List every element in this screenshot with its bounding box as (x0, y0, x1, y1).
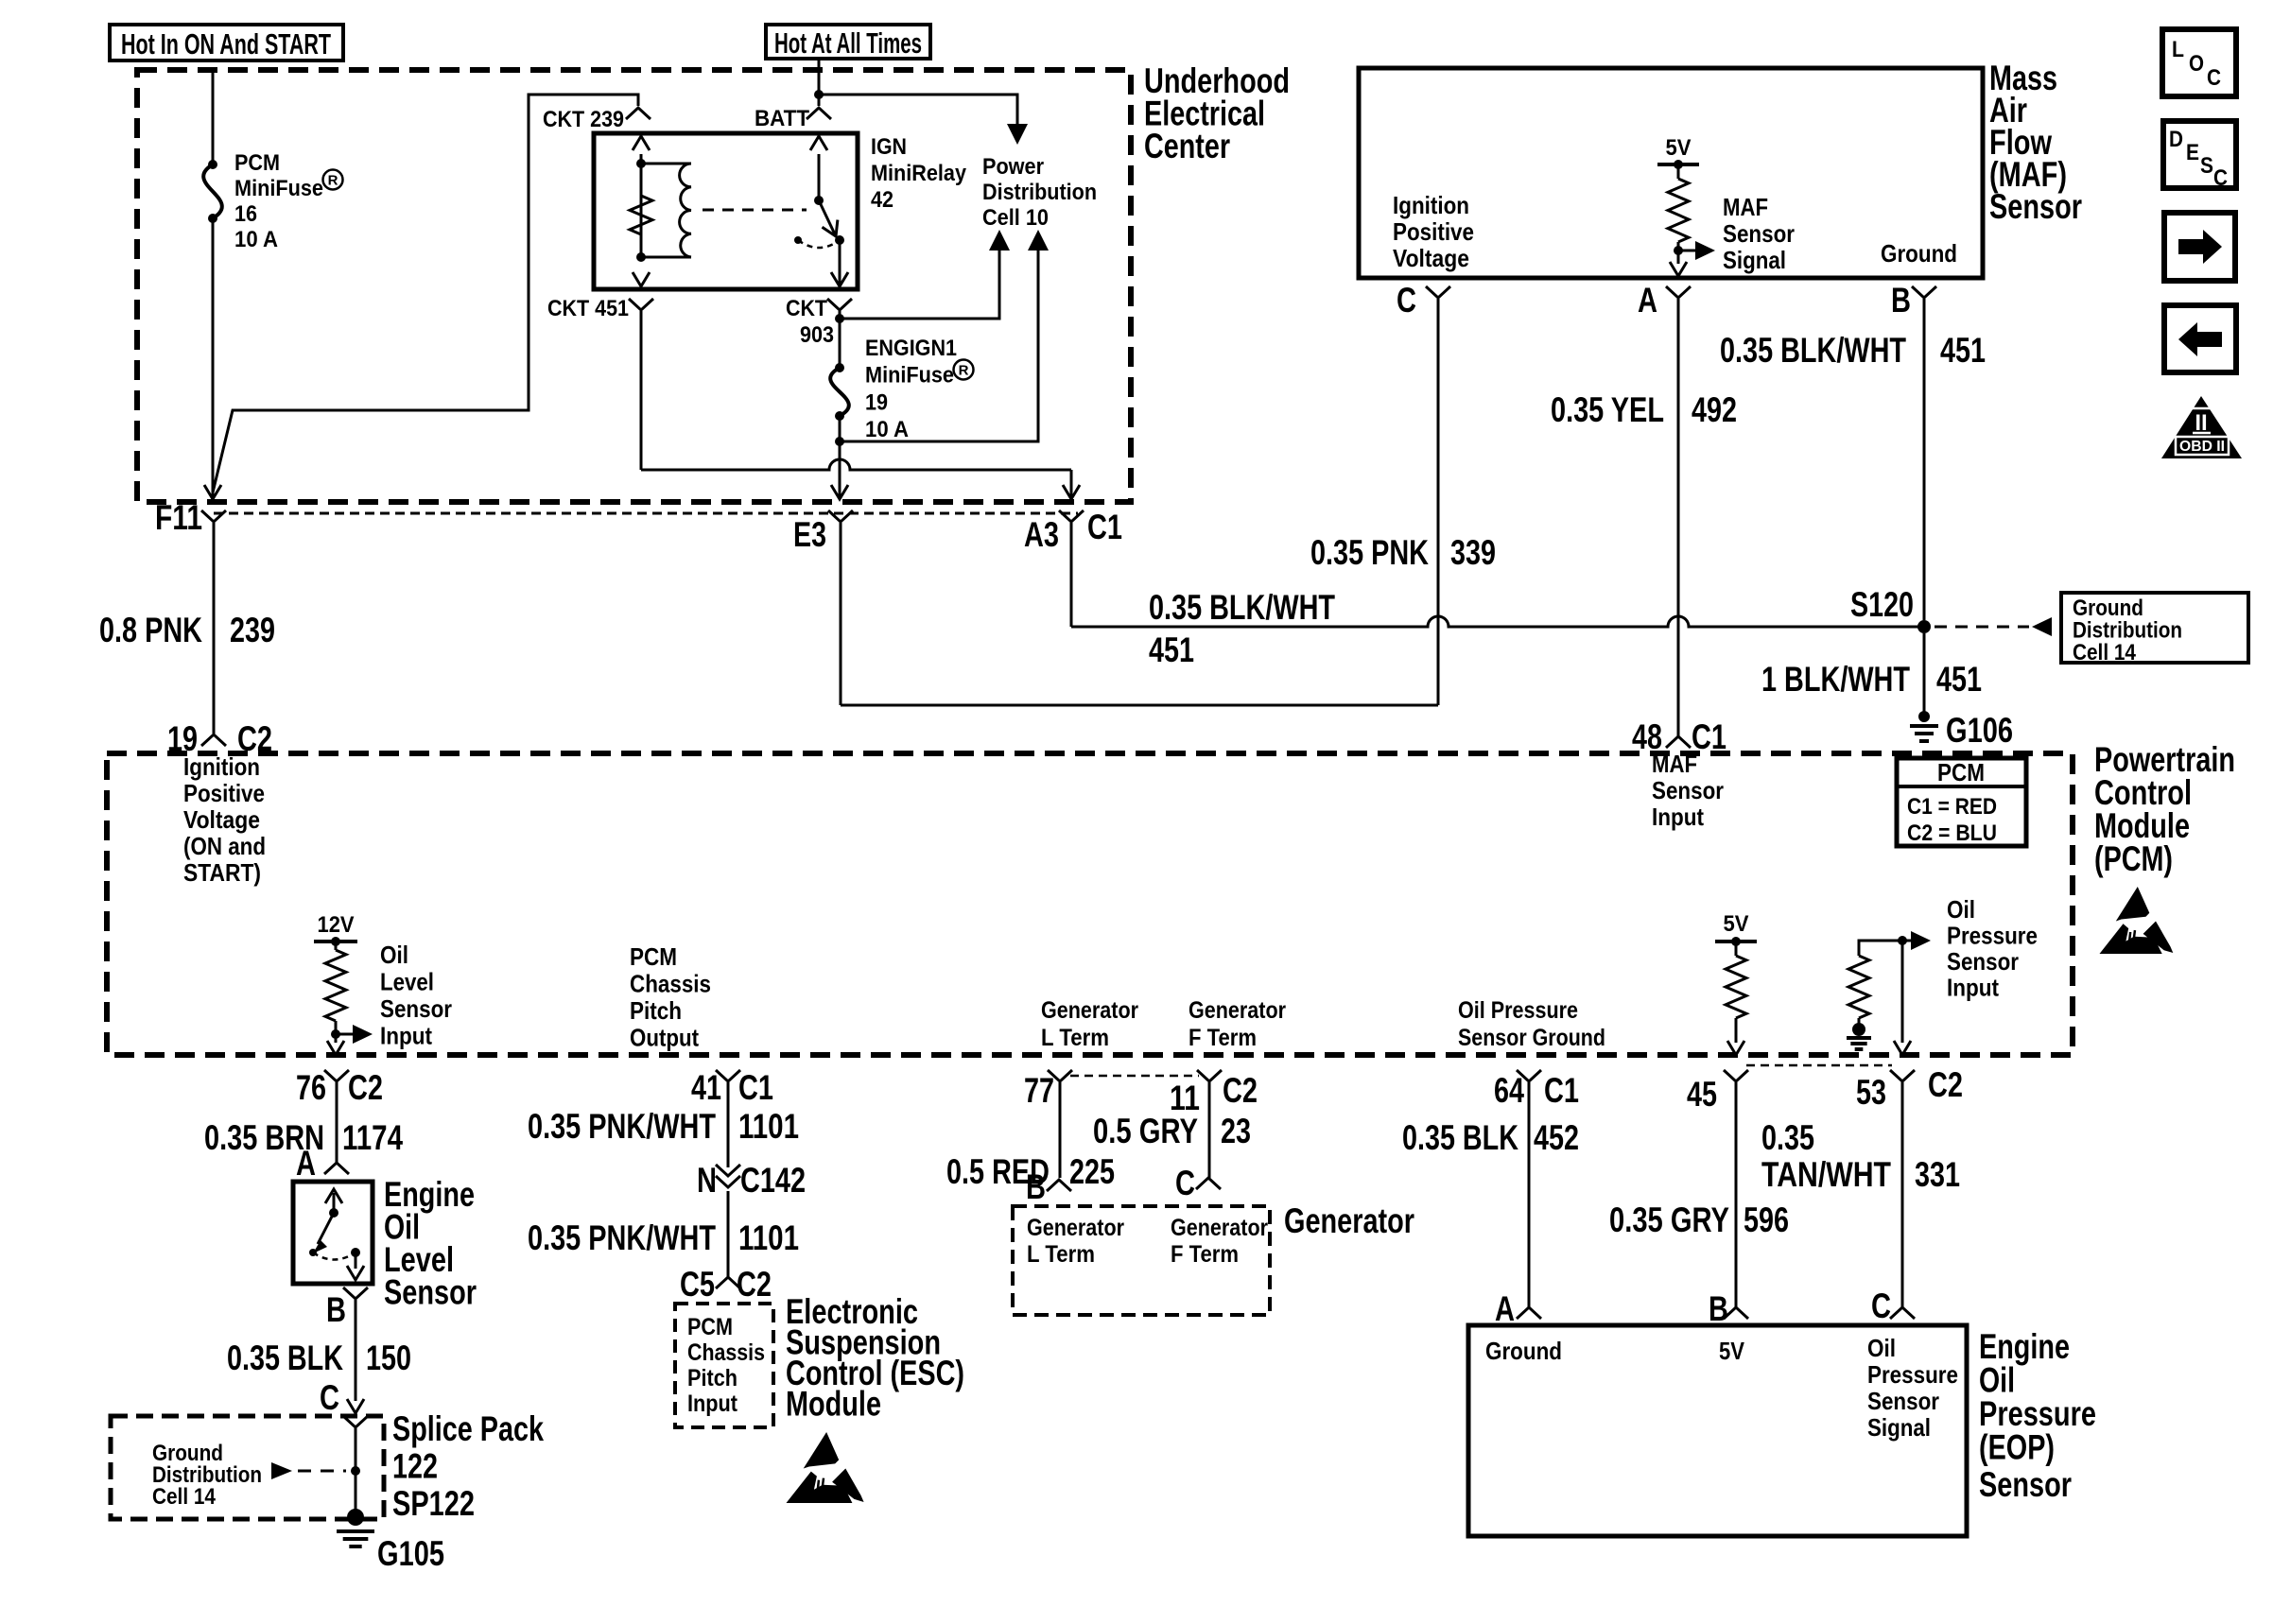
svg-text:C5: C5 (680, 1265, 715, 1304)
svg-text:Oil: Oil (1867, 1334, 1896, 1362)
svg-text:Oil Pressure: Oil Pressure (1458, 997, 1578, 1024)
svg-text:122: 122 (392, 1447, 438, 1486)
branch to Power Distribution right up-arrow (840, 250, 1038, 441)
ESD symbol PCM (2116, 887, 2150, 922)
svg-text:C1: C1 (1087, 508, 1122, 546)
icon LOC box (2162, 29, 2236, 96)
svg-text:C: C (2207, 65, 2221, 91)
svg-text:Generator: Generator (1171, 1215, 1268, 1241)
wire CKT 903 to fuse (839, 311, 842, 368)
svg-text:Generator: Generator (1189, 997, 1286, 1024)
svg-text:42: 42 (871, 187, 894, 213)
Mass Air Flow sensor box (1359, 68, 1983, 278)
MAF signal arrow right (1678, 250, 1697, 252)
svg-text:Sensor: Sensor (1652, 776, 1724, 804)
svg-text:53: 53 (1856, 1073, 1886, 1112)
relay switch contact dots and dashed arc (794, 236, 802, 244)
svg-text:R: R (959, 363, 969, 379)
wire C142 to ESC (727, 1191, 730, 1277)
label box Hot At All Times (766, 25, 930, 59)
splice S120 (1917, 620, 1931, 633)
svg-text:Center: Center (1144, 127, 1230, 165)
registered trademark symbol (323, 170, 343, 190)
svg-text:Cell 14: Cell 14 (152, 1484, 217, 1510)
5V supply bar in MAF (1657, 163, 1699, 166)
svg-text:C: C (2213, 165, 2228, 191)
svg-text:Voltage: Voltage (1393, 244, 1469, 272)
svg-text:Sensor: Sensor (1723, 219, 1795, 248)
ESC dashed box (675, 1304, 773, 1427)
svg-text:Ignition: Ignition (183, 752, 260, 781)
label box Hot In ON And START (110, 25, 343, 60)
svg-text:0.35 BLK: 0.35 BLK (227, 1339, 343, 1377)
svg-text:19: 19 (865, 389, 888, 415)
pin B generator (1047, 1180, 1071, 1191)
svg-text:F Term: F Term (1189, 1025, 1257, 1051)
svg-text:Oil: Oil (1947, 895, 1975, 924)
svg-text:16: 16 (234, 201, 257, 227)
svg-text:0.35 BLK: 0.35 BLK (1402, 1118, 1518, 1157)
svg-text:492: 492 (1692, 390, 1737, 429)
svg-text:Sensor: Sensor (1989, 187, 2082, 226)
arrow into E3 (831, 485, 848, 499)
connector fine dash 45-53 (1746, 1064, 1892, 1067)
svg-text:TAN/WHT: TAN/WHT (1761, 1155, 1891, 1194)
svg-text:Positive: Positive (1393, 217, 1474, 246)
Engine Oil Level Sensor box (293, 1182, 373, 1284)
wire oil level down to border (335, 1034, 338, 1043)
svg-text:64: 64 (1494, 1071, 1524, 1110)
svg-text:C1 = RED: C1 = RED (1907, 794, 1997, 820)
ground distribution arrow and dashed link (271, 1462, 292, 1479)
svg-text:451: 451 (1940, 331, 1986, 370)
svg-text:Hot In ON And START: Hot In ON And START (121, 27, 331, 60)
svg-text:12V: 12V (318, 912, 355, 938)
svg-text:Generator: Generator (1027, 1215, 1124, 1241)
svg-text:Sensor: Sensor (1979, 1465, 2072, 1504)
dashed stub to Ground Distribution (1935, 626, 2029, 629)
svg-text:Signal: Signal (1867, 1413, 1931, 1442)
svg-text:C2: C2 (1928, 1065, 1963, 1104)
arrow down to Power Distribution Cell 10 (1007, 124, 1028, 145)
svg-text:(ON and: (ON and (183, 832, 266, 860)
oil level switch (333, 1193, 336, 1213)
relay coil leg with arrows (640, 154, 643, 257)
svg-text:339: 339 (1450, 533, 1496, 572)
svg-text:L Term: L Term (1027, 1241, 1095, 1268)
svg-text:Input: Input (687, 1391, 738, 1417)
oil pressure pull-up resistor (1735, 942, 1738, 956)
pin 19 C2 (201, 734, 226, 746)
svg-text:451: 451 (1936, 660, 1982, 699)
svg-text:Oil: Oil (380, 941, 408, 969)
svg-text:B: B (1709, 1289, 1728, 1328)
oil level sense arrow right (336, 1033, 355, 1036)
branch to Power Distribution left up-arrow (840, 250, 999, 319)
5V supply bar PCM (1715, 940, 1757, 943)
svg-text:A3: A3 (1024, 515, 1059, 554)
svg-text:C1: C1 (738, 1068, 773, 1107)
svg-text:ENGIGN1: ENGIGN1 (865, 336, 957, 361)
relay switch arm (819, 200, 836, 236)
svg-text:Generator: Generator (1041, 997, 1138, 1024)
svg-text:Cell 14: Cell 14 (2073, 640, 2137, 665)
svg-text:Ignition: Ignition (1393, 191, 1469, 219)
svg-text:0.35 PNK/WHT: 0.35 PNK/WHT (528, 1218, 716, 1257)
svg-text:MiniFuse: MiniFuse (234, 176, 323, 201)
MAF resistor (1668, 179, 1689, 242)
svg-text:1174: 1174 (342, 1118, 403, 1157)
svg-text:Signal: Signal (1723, 246, 1786, 274)
ground G106 (1918, 711, 1930, 722)
svg-text:B: B (1026, 1167, 1046, 1206)
svg-text:Ground: Ground (1485, 1337, 1562, 1365)
relay resistor (630, 196, 652, 234)
connector fine dashed line (214, 512, 1078, 515)
registered trademark symbol 2 (954, 360, 974, 380)
svg-text:Chassis: Chassis (630, 970, 711, 998)
fuse ENGIGN1 MiniFuse 19 10A (835, 363, 844, 372)
svg-text:C142: C142 (740, 1161, 806, 1200)
svg-text:SP122: SP122 (392, 1484, 475, 1523)
svg-text:0.35: 0.35 (1761, 1118, 1814, 1157)
svg-text:Positive: Positive (183, 779, 265, 807)
svg-text:1101: 1101 (738, 1107, 799, 1146)
relay switch output leg (839, 240, 842, 257)
wire E3 across to MAF C (841, 704, 1438, 707)
svg-text:C1: C1 (1544, 1071, 1579, 1110)
svg-text:(PCM): (PCM) (2094, 839, 2173, 878)
pin CKT 903 (827, 299, 852, 310)
icon DESC box (2163, 121, 2236, 188)
svg-text:BATT: BATT (755, 106, 809, 131)
svg-text:B: B (1891, 281, 1911, 320)
pin F11 (201, 510, 226, 522)
svg-text:Chassis: Chassis (687, 1339, 765, 1366)
svg-text:1 BLK/WHT: 1 BLK/WHT (1761, 660, 1910, 699)
svg-text:Output: Output (630, 1024, 699, 1052)
pin CKT 451 (629, 299, 653, 310)
svg-text:Splice Pack: Splice Pack (392, 1409, 544, 1448)
wire ignition feed from Hot In ON And START down to fuse (212, 70, 215, 164)
Ground Distribution Cell 14 box (right) (2061, 593, 2248, 663)
svg-text:Input: Input (1652, 803, 1704, 831)
svg-text:0.35 GRY: 0.35 GRY (1609, 1201, 1729, 1239)
icon back arrow box (2164, 305, 2236, 372)
svg-text:A: A (1495, 1289, 1515, 1328)
svg-text:150: 150 (366, 1339, 411, 1377)
svg-text:0.35 PNK/WHT: 0.35 PNK/WHT (528, 1107, 716, 1146)
svg-text:A: A (1638, 281, 1657, 320)
svg-text:Sensor: Sensor (1947, 947, 2019, 976)
pin CKT 239 (626, 108, 651, 119)
svg-text:10 A: 10 A (234, 227, 278, 252)
svg-text:Input: Input (380, 1022, 432, 1050)
svg-text:S: S (2200, 153, 2213, 179)
pin A3 C1 (1059, 510, 1084, 522)
svg-text:0.8 PNK: 0.8 PNK (99, 611, 202, 649)
svg-text:1101: 1101 (738, 1218, 799, 1257)
svg-text:239: 239 (230, 611, 275, 649)
ground G105 (347, 1509, 364, 1526)
svg-text:C2: C2 (348, 1068, 383, 1107)
wire Hot At All Times down to BATT (818, 59, 821, 106)
svg-text:Pitch: Pitch (630, 996, 682, 1025)
ESD symbol ESC (804, 1432, 840, 1469)
svg-text:451: 451 (1149, 631, 1194, 669)
wire oil pressure input down (1901, 941, 1904, 1043)
PCM connector color key table (1897, 758, 2026, 846)
svg-text:Hot At All Times: Hot At All Times (774, 26, 922, 60)
svg-text:CKT 239: CKT 239 (543, 107, 624, 132)
MAF signal wire down arrow (1677, 251, 1680, 264)
arrow into F11 (204, 485, 221, 499)
svg-text:PCM: PCM (1937, 758, 1985, 786)
arrow 5V wire into border (1727, 1041, 1744, 1055)
Powertrain Control Module dashed box (107, 753, 2073, 1055)
icon forward arrow box (2164, 213, 2235, 281)
svg-text:MiniFuse: MiniFuse (865, 363, 954, 389)
svg-text:Distribution: Distribution (982, 180, 1097, 205)
svg-text:Sensor: Sensor (384, 1273, 477, 1312)
oil pressure input resistor branch (1859, 941, 1902, 956)
svg-text:C: C (1871, 1287, 1891, 1325)
svg-text:A: A (296, 1144, 316, 1183)
svg-text:F Term: F Term (1171, 1241, 1239, 1268)
svg-text:C: C (1175, 1164, 1195, 1202)
svg-text:Sensor Ground: Sensor Ground (1458, 1025, 1605, 1051)
svg-text:L: L (2172, 37, 2184, 62)
svg-text:Voltage: Voltage (183, 805, 260, 834)
svg-text:Generator: Generator (1284, 1201, 1414, 1240)
svg-text:F11: F11 (155, 498, 202, 537)
pin into splice pack (343, 1416, 368, 1427)
svg-text:Pressure: Pressure (1867, 1360, 1958, 1389)
svg-text:C2 = BLU: C2 = BLU (1907, 821, 1997, 846)
svg-text:CKT 451: CKT 451 (547, 296, 629, 321)
svg-text:Level: Level (380, 968, 434, 996)
wire fuse to F11 arrow (212, 218, 215, 496)
svg-text:23: 23 (1221, 1112, 1251, 1150)
fuse PCM MiniFuse 16 10A (208, 160, 217, 169)
svg-text:E: E (2186, 140, 2199, 165)
svg-text:MAF: MAF (1652, 750, 1697, 778)
svg-text:Input: Input (1947, 974, 1999, 1002)
svg-text:41: 41 (691, 1068, 721, 1107)
svg-text:Pitch: Pitch (687, 1365, 737, 1391)
pin A EOP (1517, 1307, 1541, 1319)
Engine Oil Pressure sensor box (1468, 1325, 1967, 1536)
pin C generator (1196, 1178, 1221, 1189)
svg-text:CKT: CKT (786, 296, 827, 321)
svg-text:76: 76 (296, 1068, 326, 1107)
svg-text:Sensor: Sensor (380, 994, 452, 1023)
svg-text:OBD II: OBD II (2179, 439, 2225, 455)
svg-text:R: R (328, 173, 338, 189)
svg-text:IGN: IGN (871, 134, 907, 160)
resistor to internal ground (1858, 1018, 1861, 1024)
svg-text:452: 452 (1534, 1118, 1579, 1157)
wire CKT451 down and across to A3 (640, 311, 643, 470)
relay coil (641, 163, 691, 165)
svg-text:0.35 YEL: 0.35 YEL (1551, 390, 1664, 429)
oil pressure input node and arrow (1898, 936, 1907, 945)
Generator dashed box (1013, 1206, 1270, 1315)
splice pack dashed box (111, 1416, 384, 1519)
pin C EOP (1890, 1307, 1915, 1319)
svg-text:D: D (2169, 127, 2183, 152)
wire fuse down to E3 (839, 416, 842, 496)
relay dashed actuator link (703, 209, 807, 212)
svg-text:331: 331 (1915, 1155, 1960, 1194)
svg-text:225: 225 (1069, 1152, 1115, 1191)
svg-text:PCM: PCM (630, 942, 677, 971)
oil level pull-up resistor (335, 942, 338, 950)
svg-text:PCM: PCM (687, 1314, 733, 1340)
svg-text:MAF: MAF (1723, 193, 1768, 221)
svg-text:Ground: Ground (1881, 239, 1957, 268)
pin A oil level sensor (324, 1163, 349, 1174)
svg-text:N: N (697, 1161, 717, 1200)
wire branch to Power Distribution arrow (819, 95, 1017, 125)
svg-text:E3: E3 (793, 515, 826, 554)
svg-text:5V: 5V (1724, 911, 1749, 937)
svg-text:5V: 5V (1666, 135, 1692, 161)
pin B EOP (1724, 1307, 1748, 1319)
svg-text:MiniRelay: MiniRelay (871, 161, 967, 186)
svg-text:Cell 10: Cell 10 (982, 205, 1049, 231)
svg-text:(EOP): (EOP) (1979, 1428, 2055, 1467)
svg-text:5V: 5V (1719, 1337, 1745, 1365)
svg-text:Module: Module (786, 1385, 881, 1424)
svg-text:Pressure: Pressure (1947, 922, 2038, 950)
icon OBD II triangle (2161, 396, 2242, 458)
connector fine dash 77-11 (1070, 1075, 1199, 1078)
svg-text:Power: Power (982, 154, 1044, 180)
12V supply bar (314, 940, 357, 943)
svg-text:C: C (320, 1378, 339, 1417)
svg-text:0.5 GRY: 0.5 GRY (1093, 1112, 1198, 1150)
arrow into A3 (1063, 485, 1080, 499)
Underhood Electrical Center dashed box (137, 70, 1131, 502)
svg-text:0.35 BLK/WHT: 0.35 BLK/WHT (1720, 331, 1906, 370)
arrow into splice pack (355, 1388, 357, 1401)
svg-text:Sensor: Sensor (1867, 1387, 1939, 1415)
svg-text:77: 77 (1024, 1071, 1054, 1110)
svg-text:596: 596 (1744, 1201, 1789, 1239)
wire CKT239 loop: up, left, down, diagonal to F11 (213, 95, 638, 492)
svg-text:0.35 BLK/WHT: 0.35 BLK/WHT (1149, 588, 1335, 627)
svg-text:0.35 PNK: 0.35 PNK (1310, 533, 1429, 572)
wire S120 down to G106 (1923, 633, 1926, 713)
svg-text:C2: C2 (1223, 1071, 1258, 1110)
svg-text:G105: G105 (377, 1534, 444, 1573)
svg-text:C: C (1397, 281, 1416, 320)
wire 451 bus from C1 to S120 (1071, 616, 1924, 627)
svg-text:10 A: 10 A (865, 417, 909, 442)
svg-text:45: 45 (1687, 1075, 1717, 1114)
pin 48 C1 (1666, 736, 1691, 748)
svg-text:PCM: PCM (234, 150, 280, 176)
pin B oil level sensor (343, 1287, 368, 1299)
pin E3 (828, 510, 853, 522)
svg-text:903: 903 (800, 322, 834, 348)
pin BATT (807, 108, 831, 119)
svg-text:G106: G106 (1946, 711, 2013, 750)
svg-text:B: B (326, 1290, 346, 1329)
svg-text:C2: C2 (737, 1265, 772, 1304)
svg-text:L Term: L Term (1041, 1025, 1109, 1051)
relay IGN MiniRelay 42 box (594, 133, 858, 289)
svg-text:START): START) (183, 858, 261, 887)
svg-text:S120: S120 (1850, 585, 1914, 624)
svg-text:O: O (2189, 51, 2204, 77)
relay switch common leg (818, 154, 821, 200)
